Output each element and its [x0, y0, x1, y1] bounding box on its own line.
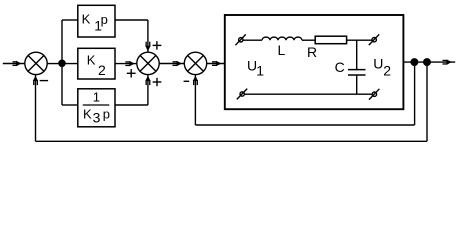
- node C (outer feedback tap dot): [424, 59, 431, 66]
- wire: K3p output: [115, 104, 148, 106]
- plus sign (K3p input to comparator 2): [153, 81, 162, 83]
- wire: branch to K1p input: [62, 19, 78, 21]
- terminal (bottom-right port): [372, 92, 376, 96]
- wire: resistor to top-right terminal: [347, 39, 372, 41]
- label K1p: [82, 12, 108, 34]
- wire: K1p output: [115, 19, 148, 21]
- plant box (two-port RLC network): [225, 15, 404, 109]
- label 1/K3p: [83, 90, 110, 126]
- summing junction (comparator 2, adder): [137, 52, 159, 74]
- svg-text:R: R: [307, 44, 317, 60]
- plus sign (K2 input to comparator 2): [127, 72, 136, 74]
- summing junction (comparator 3): [184, 52, 206, 74]
- terminal (top-right port): [372, 38, 376, 42]
- wire: K2 output to comparator 2: [115, 63, 137, 65]
- inductor L: [262, 37, 302, 40]
- resistor R: [315, 36, 346, 44]
- label K2: [87, 53, 106, 78]
- fraction bar of block 1/K3p: [83, 104, 110, 106]
- wire: outer feedback loop: [426, 62, 428, 141]
- svg-text:C: C: [335, 59, 345, 75]
- svg-text:1: 1: [256, 62, 264, 78]
- wire: capacitor branch lower: [356, 75, 358, 94]
- wire: bottom rail: [245, 93, 372, 95]
- wire: branch to K3p input: [62, 104, 78, 106]
- wire: branch vertical at node A: [61, 20, 63, 105]
- summing junction (comparator 1): [25, 52, 47, 74]
- minus sign at comparator 1: [40, 80, 48, 82]
- wire: capacitor branch upper: [356, 40, 358, 69]
- label U1: [247, 57, 264, 78]
- wire: comparator 1 output to node A and K2 input: [47, 63, 78, 65]
- svg-text:p: p: [101, 12, 108, 27]
- node A (branch junction dot): [59, 60, 65, 66]
- wire: top-left terminal to inductor: [243, 39, 262, 41]
- svg-text:L: L: [278, 42, 286, 58]
- svg-text:K: K: [87, 53, 96, 68]
- wire: inner feedback loop: [414, 62, 416, 125]
- terminal (bottom-left port): [240, 92, 244, 96]
- block K1p: [78, 5, 115, 37]
- plus sign (K1p input to comparator 2): [153, 44, 162, 46]
- svg-text:2: 2: [98, 62, 106, 78]
- svg-text:p: p: [103, 106, 110, 121]
- wire: adder output to comparator 3: [159, 63, 184, 65]
- wire: input signal: [3, 63, 25, 65]
- wire: comparator 3 output to plant box: [207, 63, 225, 65]
- block 1/K3p: [78, 89, 115, 127]
- svg-text:3: 3: [93, 110, 101, 126]
- svg-text:2: 2: [383, 62, 391, 78]
- node B (inner feedback tap dot): [411, 59, 418, 66]
- terminal (top-left port): [239, 38, 243, 42]
- wire: plant output: [403, 61, 455, 63]
- label U2: [373, 55, 391, 78]
- wire: inductor to resistor: [302, 39, 315, 41]
- capacitor C: [348, 69, 366, 71]
- svg-text:K: K: [83, 106, 92, 121]
- svg-text:U: U: [373, 55, 383, 71]
- minus sign at comparator 3: [184, 80, 190, 82]
- svg-text:K: K: [82, 12, 91, 27]
- block K2: [78, 48, 115, 79]
- svg-text:1: 1: [93, 90, 100, 105]
